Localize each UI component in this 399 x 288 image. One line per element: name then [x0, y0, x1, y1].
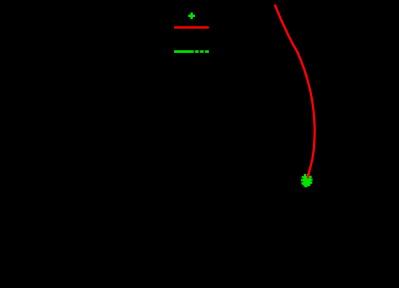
legend point sample: green plus	[188, 12, 195, 19]
cluster of green plus markers (minimum point)	[301, 174, 313, 188]
legend line sample: green dashed line	[174, 50, 209, 53]
legend line sample: red solid line	[174, 26, 209, 28]
red trajectory curve	[275, 5, 315, 179]
